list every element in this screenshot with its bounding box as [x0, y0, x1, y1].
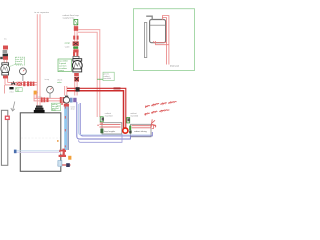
- manifold 1 inlet valve (green): [100, 117, 104, 122]
- svg-text:mu: mu: [4, 39, 7, 41]
- svg-text:speed: speed: [16, 64, 21, 66]
- relief valve (orange square): [68, 156, 71, 160]
- red handwriting annotation line 2: [145, 110, 170, 115]
- pump P1 flange top: [2, 63, 9, 65]
- boiler supply branch pipe (to mixing cluster): [34, 95, 60, 101]
- wall panel (left tall rectangle): [1, 110, 7, 165]
- mixing valve cluster MV1: [57, 96, 77, 108]
- boiler B1: [20, 113, 61, 172]
- svg-text:boiler: boiler: [52, 109, 57, 112]
- svg-text:radiant floor loop: radiant floor loop: [63, 14, 80, 17]
- down arrow (gray): [11, 102, 15, 112]
- check valve (red X block below pump P2): [57, 73, 79, 84]
- return line A (periwinkle): [81, 132, 153, 136]
- pump P2 (secondary circulator): [72, 61, 82, 71]
- svg-text:loop lengths: loop lengths: [104, 130, 115, 133]
- union U1 (red flange pair on header): [23, 81, 29, 86]
- isolation valve (green, on secondary column): [74, 19, 78, 24]
- temperature gauge G1: [20, 68, 27, 81]
- svg-text:to air separator: to air separator: [34, 11, 49, 14]
- svg-text:pump: pump: [59, 70, 65, 72]
- gate valve V1 (black bowtie on header): [9, 81, 15, 93]
- pump P2 label (green box): [58, 59, 71, 72]
- red check mark annotation: [151, 119, 156, 127]
- balancing valve (black block on radiant main): [76, 87, 80, 91]
- manifold 2 (box): [129, 124, 153, 137]
- boiler spec label (green box above boiler): [52, 103, 63, 111]
- tank vent pipe (gray): [146, 16, 152, 19]
- tank drain label (red tiny text): [170, 64, 180, 67]
- manifold return drop (periwinkle L-pipe): [77, 102, 83, 139]
- main riser pipe (double red vertical): [37, 14, 40, 105]
- svg-text:manifold: manifold: [104, 78, 111, 80]
- manifold 2 inlet valve (green): [127, 118, 130, 123]
- secondary column pipe (lower): [65, 81, 78, 95]
- svg-text:drain: drain: [71, 108, 75, 110]
- svg-text:drain pan: drain pan: [170, 64, 180, 67]
- manifold 1 (box): [97, 123, 122, 134]
- supply header pipe (horizontal to riser): [10, 83, 38, 85]
- red handwriting annotation line 1: [145, 101, 176, 107]
- boiler drain line (red): [58, 163, 71, 167]
- return line B (periwinkle): [80, 136, 131, 139]
- union U2 (red flange pair on branch): [38, 96, 49, 102]
- manifold 2 label (tiny gray): [130, 112, 138, 117]
- expansion tank stub (orange fitting on riser): [34, 91, 38, 95]
- thermostat (red square on panel edge): [5, 116, 9, 119]
- tank T1 (water heater in detail box): [150, 20, 166, 43]
- circulator donut (red ring): [123, 128, 128, 133]
- svg-text:manifold: manifold: [130, 116, 138, 118]
- check valve CV1 (red block): [17, 82, 22, 86]
- pump P1 label (green dashed box): [9, 57, 25, 67]
- svg-text:purge: purge: [65, 43, 71, 45]
- svg-text:chk: chk: [16, 90, 19, 92]
- pump P1 (left circulator): [1, 64, 10, 73]
- pump P1 flange bottom: [2, 73, 9, 75]
- svg-text:union: union: [38, 96, 42, 98]
- pump P2 flange bottom: [73, 69, 82, 72]
- manifold 1 feed pipe (horizontal pair + drop): [78, 30, 100, 117]
- return line C (faint periwinkle): [79, 134, 122, 142]
- fitting (red block below green valve): [74, 26, 78, 31]
- svg-text:valve: valve: [9, 91, 13, 93]
- svg-text:radiant tubing: radiant tubing: [134, 130, 147, 133]
- boiler return risers (blue/red to boiler right): [57, 106, 76, 150]
- condensate box (light blue): [58, 161, 62, 167]
- boiler return connections (red fittings at boiler right): [59, 149, 66, 157]
- secondary column pipe (upper): [75, 19, 77, 57]
- expansion tank enclosure (green detail box): [134, 9, 195, 71]
- svg-text:supply temp: supply temp: [63, 17, 76, 20]
- main riser label (tiny gray text): [34, 11, 49, 14]
- riser tee flanges: [30, 82, 34, 86]
- left pump outlet pipe + elbow: [3, 75, 11, 93]
- secondary loop label (tiny gray text): [63, 14, 80, 20]
- tank red piping loop: [154, 16, 169, 65]
- svg-text:mix: mix: [57, 106, 60, 108]
- check valve label (green box): [16, 88, 23, 93]
- boiler flue flange (black stack on boiler top): [34, 106, 45, 113]
- boiler feed line (through boiler, light blue): [14, 150, 60, 154]
- manifold 1 label (tiny gray): [105, 112, 113, 117]
- left column top fittings (fill valve group): [0, 39, 8, 64]
- sensor well strip (thin rectangle): [144, 23, 146, 58]
- radiant main (thick red supply with drop to manifold 2): [67, 87, 126, 128]
- union (secondary column): [73, 36, 78, 40]
- valve cluster (secondary column): [65, 41, 79, 52]
- gauge G2 (near riser): [45, 78, 54, 98]
- pump P2 flange top: [73, 52, 82, 61]
- manifold feed label (green box with leader): [97, 72, 114, 80]
- svg-text:manifold: manifold: [105, 116, 113, 118]
